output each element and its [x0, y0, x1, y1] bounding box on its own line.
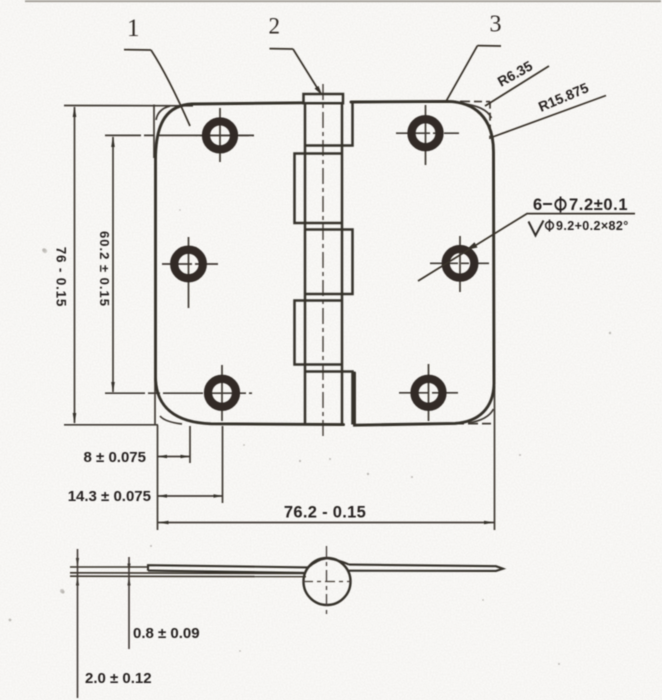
svg-text:2.0 ± 0.12: 2.0 ± 0.12	[85, 670, 152, 687]
svg-text:60.2 ± 0.15: 60.2 ± 0.15	[97, 231, 112, 307]
svg-text:3: 3	[490, 12, 502, 38]
svg-text:14.3 ± 0.075: 14.3 ± 0.075	[68, 488, 151, 505]
svg-text:6: 6	[533, 196, 542, 214]
svg-text:8 ± 0.075: 8 ± 0.075	[84, 449, 146, 466]
svg-text:2: 2	[269, 14, 281, 39]
svg-text:76 - 0.15: 76 - 0.15	[54, 247, 69, 308]
svg-text:7.2±0.1: 7.2±0.1	[569, 196, 628, 214]
svg-text:9.2+0.2×82°: 9.2+0.2×82°	[556, 219, 629, 233]
svg-text:1: 1	[127, 15, 140, 42]
svg-text:0.8 ± 0.09: 0.8 ± 0.09	[133, 625, 200, 642]
svg-text:76.2 - 0.15: 76.2 - 0.15	[284, 504, 366, 522]
